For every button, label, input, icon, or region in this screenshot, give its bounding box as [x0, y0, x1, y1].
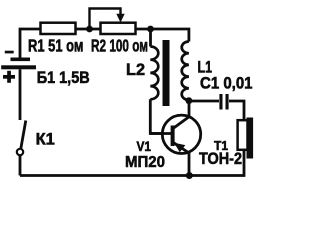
svg-text:L2: L2: [126, 61, 145, 79]
svg-text:Б1 1,5В: Б1 1,5В: [37, 69, 90, 87]
svg-text:К1: К1: [36, 129, 55, 148]
svg-text:ТОН-2: ТОН-2: [199, 150, 242, 168]
svg-text:R2 100 ом: R2 100 ом: [91, 36, 148, 56]
svg-text:МП20: МП20: [125, 154, 165, 171]
svg-text:R1 51 ом: R1 51 ом: [28, 36, 84, 56]
svg-text:С1 0,01: С1 0,01: [200, 73, 253, 92]
svg-text:V1: V1: [137, 138, 152, 154]
